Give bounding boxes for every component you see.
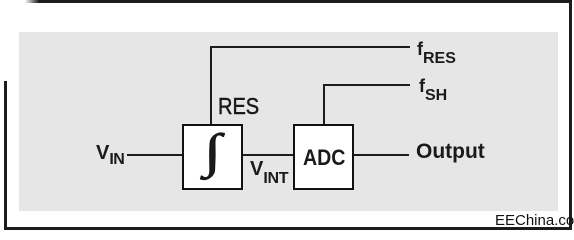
label ADC xyxy=(303,147,345,169)
label Output xyxy=(416,141,485,162)
outer frame right line xyxy=(569,0,572,230)
gray panel background xyxy=(19,32,558,211)
outer frame left line xyxy=(4,81,7,230)
label V_INT xyxy=(250,159,288,187)
label f_RES xyxy=(417,40,456,67)
outer frame bottom line xyxy=(4,227,572,230)
wire ADC to Output xyxy=(354,154,409,156)
wire f_SH vertical to ADC xyxy=(323,84,325,124)
label EEChina.com xyxy=(495,213,574,228)
wire V_IN input xyxy=(127,154,182,156)
integrator block U1 xyxy=(182,124,243,190)
wire f_SH horizontal xyxy=(323,84,410,86)
label f_SH xyxy=(419,77,447,104)
outer frame top line xyxy=(25,0,572,3)
wire RES vertical to integrator xyxy=(210,46,212,124)
integral symbol xyxy=(204,128,222,176)
wire f_RES horizontal xyxy=(210,46,410,48)
ADC block xyxy=(293,124,354,190)
label V_IN xyxy=(96,143,124,168)
wire integrator to ADC xyxy=(243,154,293,156)
label RES xyxy=(218,95,259,118)
